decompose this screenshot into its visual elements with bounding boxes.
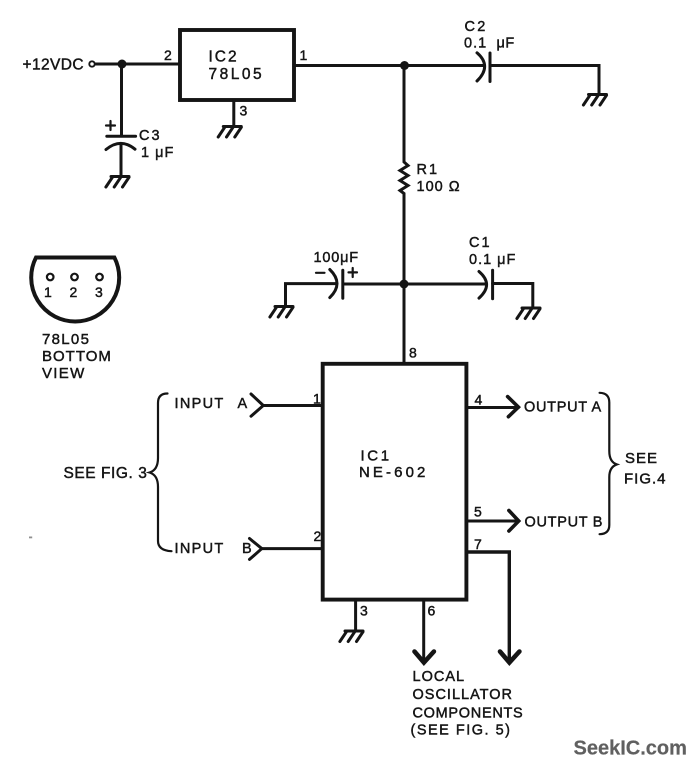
wire terminal to IC2 pin 2 (96, 63, 181, 66)
svg-text:COMPONENTS: COMPONENTS (413, 706, 524, 722)
ground below C3 (106, 177, 129, 188)
ground below 100uF (270, 307, 293, 318)
svg-text:7: 7 (474, 536, 482, 552)
wire junction down to C3 (120, 64, 123, 135)
wire node to IC1 pin 8 (403, 284, 406, 364)
input B arrowhead (250, 539, 262, 560)
brace left inputs (150, 394, 172, 552)
svg-text:SEE: SEE (625, 450, 658, 467)
wire node to C2 (405, 64, 484, 67)
mixer IC1 NE-602 box (323, 364, 467, 600)
78L05 bottom view pin 1 circle (47, 274, 54, 281)
svg-text:3: 3 (360, 603, 368, 619)
terminal circle +12VDC (89, 61, 94, 66)
junction node top of R1 (400, 61, 409, 70)
svg-text:+12VDC: +12VDC (23, 57, 84, 74)
wire IC1 pin 7 down (466, 552, 509, 661)
capacitor C3 plus sign (106, 121, 115, 130)
svg-text:0.1 μF: 0.1 μF (469, 252, 516, 268)
capacitor C3 curved plate (106, 143, 135, 149)
ground right of C1 (517, 308, 540, 319)
capacitor 100uF straight plate (341, 270, 344, 298)
op-amp/regulator IC2 box (180, 30, 294, 100)
wire node to 100uF straight plate (343, 283, 404, 286)
input A arrowhead (251, 394, 263, 416)
svg-text:OUTPUT B: OUTPUT B (525, 515, 604, 531)
ground below IC2 pin 3 (218, 127, 241, 138)
wire IC2 pin 3 to ground (232, 100, 235, 127)
78L05 bottom view pin 2 circle (71, 274, 78, 281)
wire 100uF to left corner (286, 284, 337, 307)
svg-text:5: 5 (474, 504, 482, 520)
wire IC1 pin 6 down (422, 600, 425, 661)
arrowhead pin 6 local oscillator (415, 652, 434, 663)
svg-text:OSCILLATOR: OSCILLATOR (413, 687, 514, 703)
wire input A to pin 1 (263, 404, 322, 407)
resistor R1 (400, 66, 408, 285)
svg-text:3: 3 (240, 103, 248, 119)
capacitor C1 curved plate (479, 272, 487, 299)
wire node to C1 (404, 283, 486, 286)
capacitor C2 straight plate (489, 53, 492, 82)
svg-text:R1: R1 (417, 162, 440, 178)
svg-text:0.1: 0.1 (464, 36, 487, 52)
svg-text:4: 4 (475, 392, 483, 408)
capacitor 100uF curved plate (330, 270, 337, 298)
svg-text:LOCAL: LOCAL (413, 669, 466, 685)
svg-text:INPUT: INPUT (175, 541, 225, 557)
junction node at C3 tap (118, 60, 127, 69)
scan smudge artifact (29, 537, 32, 539)
output B arrowhead (509, 511, 519, 532)
svg-text:A: A (238, 396, 248, 412)
svg-text:1: 1 (44, 284, 52, 300)
svg-text:C3: C3 (139, 128, 162, 144)
wire C3 to ground (120, 144, 123, 177)
capacitor C3 top plate (107, 135, 136, 138)
svg-text:BOTTOM: BOTTOM (42, 348, 112, 365)
svg-text:OUTPUT A: OUTPUT A (524, 400, 602, 416)
svg-text:2: 2 (70, 284, 78, 300)
svg-text:SeekIC.com: SeekIC.com (574, 738, 687, 760)
svg-text:78L05: 78L05 (42, 331, 90, 348)
capacitor C2 curved plate (477, 53, 485, 81)
svg-text:IC1: IC1 (361, 448, 392, 465)
svg-text:IC2: IC2 (209, 49, 239, 66)
ground below IC1 pin 3 (340, 631, 363, 642)
wire pin 5 to output B (466, 520, 518, 523)
svg-text:(SEE FIG. 5): (SEE FIG. 5) (411, 723, 512, 739)
svg-text:INPUT: INPUT (175, 396, 225, 412)
78L05 bottom view package outline (31, 258, 119, 322)
svg-text:2: 2 (314, 528, 322, 544)
junction node at pin 8 rail (400, 280, 409, 289)
wire IC2 pin 1 to node (294, 64, 404, 67)
wire C2 to right corner (490, 66, 599, 95)
svg-text:FIG.4: FIG.4 (624, 471, 667, 488)
78L05 bottom view pin 3 circle (96, 274, 103, 281)
svg-text:1: 1 (300, 47, 308, 63)
svg-text:μF: μF (497, 36, 515, 52)
svg-text:SEE FIG. 3: SEE FIG. 3 (64, 465, 148, 482)
wire pin 4 to output A (466, 406, 518, 409)
wire input B to pin 2 (262, 547, 323, 550)
capacitor 100uF minus sign (316, 272, 325, 274)
svg-text:C1: C1 (469, 235, 492, 251)
output A arrowhead (508, 397, 519, 417)
svg-text:1 μF: 1 μF (141, 145, 174, 161)
capacitor 100uF plus sign (349, 268, 358, 277)
svg-text:C2: C2 (465, 19, 488, 35)
svg-text:3: 3 (95, 284, 103, 300)
svg-text:8: 8 (409, 345, 417, 361)
svg-text:6: 6 (428, 603, 436, 619)
svg-text:78L05: 78L05 (209, 66, 265, 83)
brace right outputs (600, 393, 617, 534)
svg-text:NE-602: NE-602 (359, 464, 428, 481)
svg-text:B: B (242, 541, 252, 557)
wire IC1 pin 3 to ground (354, 600, 357, 631)
capacitor C1 straight plate (491, 270, 494, 299)
wire C1 to right corner (493, 284, 533, 309)
svg-text:2: 2 (164, 47, 172, 63)
arrowhead pin 7 local oscillator (500, 652, 519, 663)
svg-text:100μF: 100μF (314, 250, 359, 266)
svg-text:VIEW: VIEW (42, 365, 86, 382)
svg-text:100 Ω: 100 Ω (417, 179, 461, 195)
ground right of C2 (583, 95, 606, 106)
